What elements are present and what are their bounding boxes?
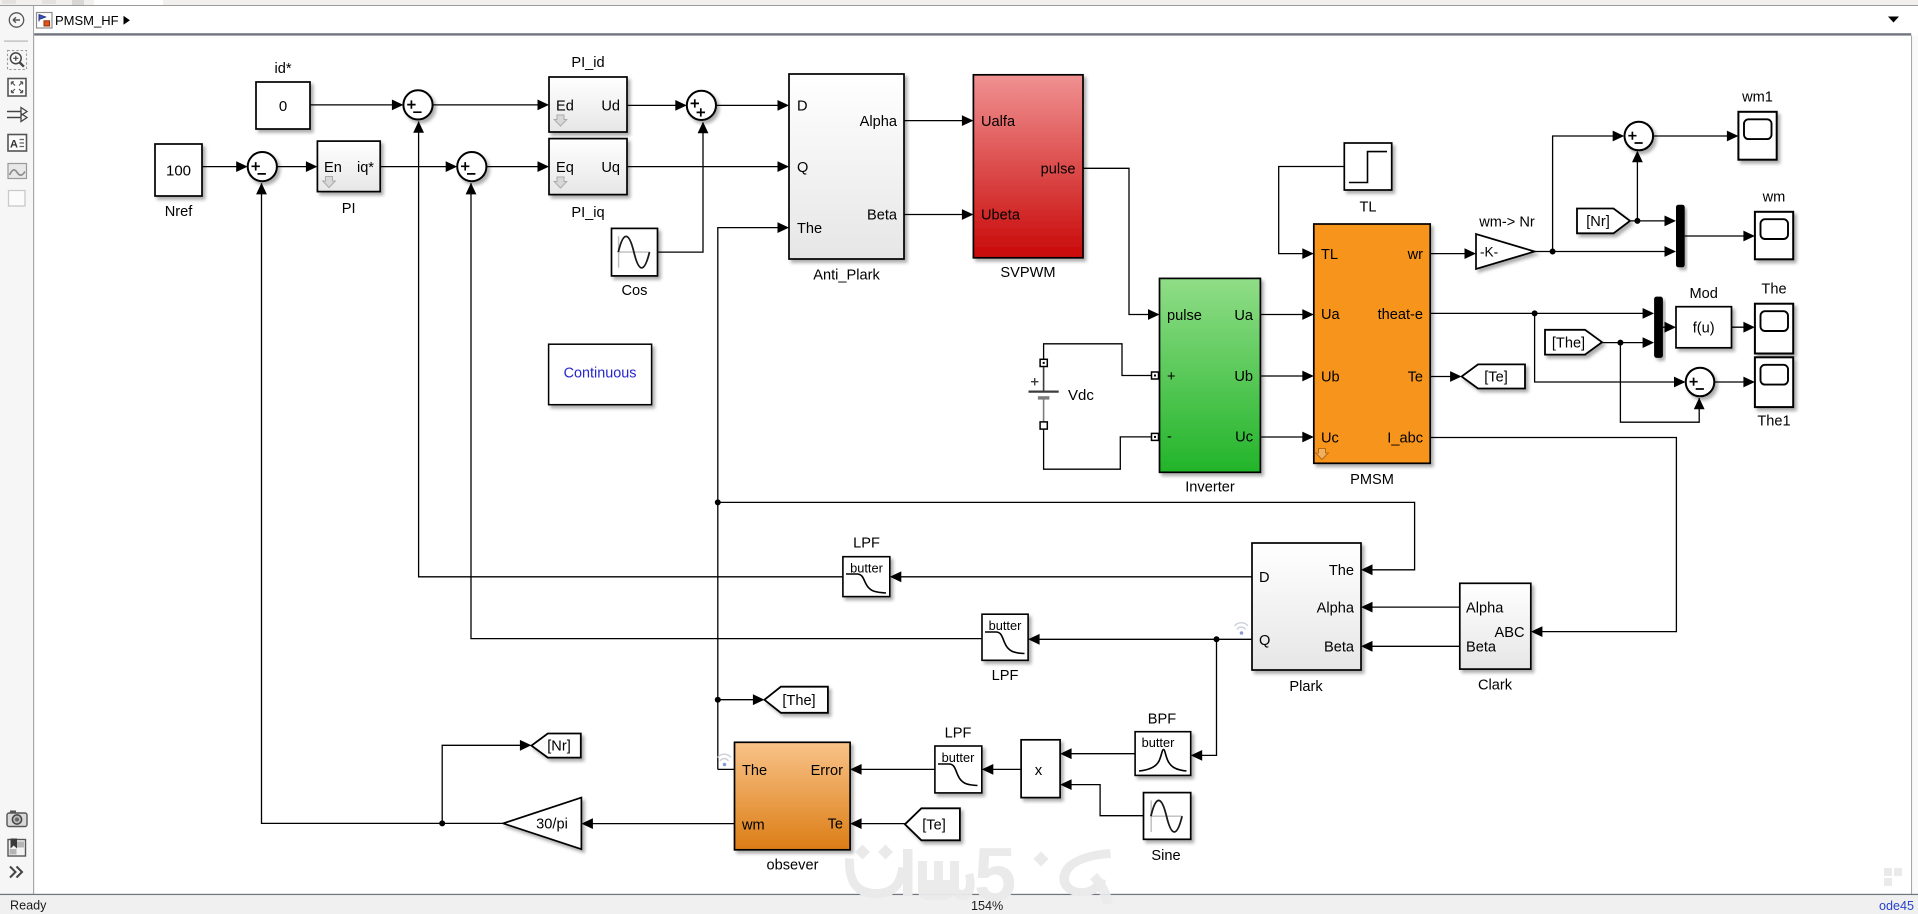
sidebar: report icon: [8, 840, 26, 857]
svg-text:Ud: Ud: [601, 99, 620, 115]
filter block LPF butter mid (flipped): [982, 614, 1028, 684]
svg-text:PI_id: PI_id: [571, 55, 604, 71]
svg-text:[Te]: [Te]: [922, 818, 946, 834]
wire Vdc minus to Inverter minus: [1044, 429, 1159, 469]
svg-text:Ualfa: Ualfa: [981, 114, 1016, 130]
svg-text:Q: Q: [797, 160, 808, 176]
product block x (flipped): [1021, 740, 1060, 798]
svg-text:Vdc: Vdc: [1068, 387, 1094, 404]
wire S3 to PI_iq Eq: [486, 161, 549, 172]
wire Anti_Plark Alpha to SVPWM Ualfa: [904, 115, 973, 126]
svg-text:PI: PI: [342, 201, 356, 217]
svg-text:id*: id*: [274, 61, 291, 77]
svg-text:LPF: LPF: [945, 726, 972, 742]
svg-text:The: The: [1761, 282, 1786, 298]
wire 30/pi to sum S1 feedback and [Nr] branch, junction: [256, 183, 531, 827]
svg-text:Alpha: Alpha: [860, 114, 898, 130]
subsystem Clark (flipped): [1460, 583, 1531, 693]
sum junction S4 (Ud + comp): [687, 91, 716, 120]
wire Plark D to LPF upper: [890, 571, 1252, 582]
svg-text:LPF: LPF: [853, 536, 880, 552]
wire [Te] lower to obsever Te: [850, 818, 905, 829]
wire LPF lower to obsever Error: [850, 764, 935, 775]
wire S1 to PI En: [277, 161, 318, 172]
svg-text:En: En: [324, 160, 342, 176]
net The: trunk to Anti_Plark The, Plark The, goto [The], obsever The: [715, 222, 1415, 769]
wire product to LPF lower: [982, 764, 1021, 775]
sum junction S1 (speed error): [248, 152, 277, 181]
svg-text:butter: butter: [1142, 735, 1175, 750]
svg-text:wm1: wm1: [1741, 90, 1773, 106]
constant block Nref value 100: [155, 144, 202, 220]
svg-text:wm-> Nr: wm-> Nr: [1478, 215, 1535, 231]
wire Clark Alpha to Plark Alpha: [1361, 602, 1460, 613]
svg-text:LPF: LPF: [992, 668, 1019, 684]
svg-text:[Nr]: [Nr]: [1586, 214, 1610, 230]
sidebar: back arrow icon: [9, 13, 23, 27]
wire PI_id Ud to S4: [627, 100, 687, 111]
svg-text:[The]: [The]: [782, 693, 815, 709]
svg-text:[Nr]: [Nr]: [547, 739, 571, 755]
subsystem Anti_Plark: [789, 74, 904, 284]
svg-text:30/pi: 30/pi: [536, 817, 568, 833]
wire PMSM wr to gain: [1430, 248, 1476, 259]
breadcrumb dropdown arrow: [1888, 17, 1899, 23]
wire mux M1 to wm scope: [1685, 231, 1755, 242]
svg-text:BPF: BPF: [1148, 712, 1176, 728]
svg-text:Te: Te: [1408, 370, 1423, 386]
wire PI_iq Uq to Anti_Plark Q: [627, 161, 789, 172]
from tag [The]: [1545, 330, 1602, 355]
subsystem PMSM: [1314, 224, 1430, 488]
svg-text:PMSM: PMSM: [1350, 472, 1394, 488]
wire PI iq* to S3: [380, 161, 457, 172]
wire S4 to Anti_Plark D: [716, 100, 789, 111]
wire BPF to product top input: [1060, 748, 1135, 759]
sidebar: annotation icon: [8, 135, 27, 152]
svg-text:Mod: Mod: [1690, 286, 1718, 302]
svg-text:Inverter: Inverter: [1185, 480, 1235, 496]
wire Vdc plus to Inverter plus: [1044, 344, 1159, 379]
wire LPF mid to sum S3 (iq feedback): [466, 183, 982, 639]
subsystem PI: [317, 141, 380, 217]
wire Inverter Uc to PMSM Uc: [1260, 432, 1313, 443]
scope The: [1755, 282, 1793, 354]
gain 30/pi (flipped): [503, 798, 581, 850]
svg-text:PMSM_HF: PMSM_HF: [55, 13, 119, 28]
svg-text:Te: Te: [828, 816, 843, 832]
wire LPF upper to sum S2 (id feedback): [413, 121, 843, 577]
breadcrumb model icon: [37, 13, 53, 29]
canvas right border: [1911, 36, 1912, 894]
sidebar: image icon: [8, 164, 27, 179]
svg-text:The: The: [742, 763, 767, 779]
svg-text:D: D: [797, 99, 808, 115]
sum junction S3 (iq error): [457, 152, 486, 181]
svg-text:Ub: Ub: [1321, 370, 1340, 386]
subsystem Inverter: [1160, 278, 1261, 495]
wire mux M2 to Mod: [1663, 322, 1676, 333]
scope wm: [1755, 190, 1793, 260]
wire Sine to product bottom input: [1060, 779, 1143, 816]
wire Clark Beta to Plark Beta: [1361, 641, 1460, 652]
signal logging badge at obsever The: [718, 754, 732, 766]
sidebar: expand chevrons: [10, 867, 22, 878]
svg-text:A: A: [10, 139, 18, 151]
subsystem PI_iq: [549, 139, 627, 221]
wire gain output to mux M1 and sum S5, junction: [1535, 131, 1676, 257]
wire Plark Q to LPF mid, junction to BPF: [1028, 634, 1252, 761]
svg-text:Nref: Nref: [165, 204, 194, 220]
wire Inverter Ua to PMSM Ua: [1260, 309, 1313, 320]
from tag [Te] lower: [905, 808, 960, 840]
svg-text:D: D: [1259, 570, 1270, 586]
wire S6 to The1 scope: [1714, 377, 1755, 388]
svg-text:PI_iq: PI_iq: [571, 205, 604, 221]
svg-text:-K-: -K-: [1480, 245, 1498, 260]
wire S2 to PI_id Ed: [433, 100, 549, 111]
source block Cos: [612, 228, 658, 299]
sum junction S5: [1625, 122, 1654, 151]
svg-text:Uc: Uc: [1321, 431, 1339, 447]
svg-text:SVPWM: SVPWM: [1000, 265, 1055, 281]
svg-text:Continuous: Continuous: [564, 366, 637, 382]
wire Nref to S1: [202, 161, 248, 172]
svg-text:I_abc: I_abc: [1387, 431, 1423, 447]
function block Mod f(u): [1676, 286, 1732, 348]
source Vdc battery: [1029, 359, 1095, 429]
svg-text:TL: TL: [1321, 247, 1338, 263]
svg-text:Ubeta: Ubeta: [981, 208, 1021, 224]
wire SVPWM pulse to Inverter pulse: [1083, 168, 1160, 320]
svg-text:Cos: Cos: [622, 283, 648, 299]
svg-text:Clark: Clark: [1478, 678, 1513, 694]
wire PMSM I_abc to Clark ABC: [1430, 438, 1676, 638]
svg-text:ABC: ABC: [1494, 625, 1524, 641]
svg-text:Plark: Plark: [1289, 679, 1323, 695]
svg-text:Beta: Beta: [1324, 640, 1355, 656]
svg-text:butter: butter: [942, 750, 975, 765]
svg-text:TL: TL: [1359, 200, 1376, 216]
svg-text:Beta: Beta: [867, 208, 898, 224]
svg-text:Eq: Eq: [556, 160, 574, 176]
svg-text:pulse: pulse: [1167, 308, 1202, 324]
svg-text:Beta: Beta: [1466, 640, 1497, 656]
wire S5 to wm1: [1653, 131, 1738, 142]
wire Mod to The scope: [1732, 322, 1755, 333]
svg-text:[Te]: [Te]: [1484, 370, 1508, 386]
filter block LPF butter lower (flipped): [935, 726, 982, 793]
from tag [Nr]: [1577, 209, 1630, 234]
left sidebar background: [0, 6, 33, 894]
mux M1: [1676, 205, 1685, 268]
wire TL to PMSM TL: [1279, 167, 1345, 260]
status bar: [0, 894, 1918, 895]
svg-text:obsever: obsever: [767, 858, 819, 874]
svg-text:The: The: [797, 221, 822, 237]
wire Cos to S4 bottom: [658, 122, 709, 252]
wire obsever wm to 30/pi: [581, 818, 734, 829]
svg-text:+: +: [1167, 369, 1176, 385]
sum junction S2 (id error): [403, 90, 432, 119]
sidebar: signal arrows icon: [7, 112, 23, 118]
svg-text:The: The: [1329, 563, 1354, 579]
svg-text:Ua: Ua: [1321, 307, 1341, 323]
svg-text:-: -: [1167, 429, 1172, 445]
svg-text:theat-e: theat-e: [1378, 307, 1423, 323]
gain wm->Nr (-K-): [1476, 215, 1535, 270]
svg-text:iq*: iq*: [357, 160, 374, 176]
wire [The] to mux M2 bottom and loop to S6 bottom: [1602, 337, 1705, 422]
svg-text:Alpha: Alpha: [1466, 600, 1504, 616]
annotation Continuous (powergui): [549, 344, 652, 405]
signal logging badge at Plark Q: [1235, 623, 1249, 635]
wire Anti_Plark Beta to SVPWM Ubeta: [904, 209, 973, 220]
svg-text:0: 0: [279, 98, 287, 115]
svg-text:Anti_Plark: Anti_Plark: [813, 268, 880, 284]
breadcrumb bar: [34, 6, 1918, 34]
constant block id* value 0: [256, 61, 310, 129]
svg-text:100: 100: [166, 163, 191, 180]
sidebar: box icon: [9, 191, 26, 207]
sidebar separator: [4, 41, 28, 42]
scope wm1: [1738, 90, 1776, 160]
filter block LPF butter upper (flipped): [843, 536, 890, 597]
svg-text:Q: Q: [1259, 633, 1270, 649]
svg-text:pulse: pulse: [1041, 161, 1076, 177]
filter block BPF butter (flipped): [1135, 712, 1191, 776]
wire id* const to S2: [310, 100, 403, 111]
svg-text:5: 5: [974, 833, 1016, 914]
svg-text:x: x: [1035, 762, 1043, 779]
subsystem PI_id: [549, 55, 627, 132]
sidebar: zoom icon: [8, 51, 27, 70]
sidebar: camera icon: [7, 813, 27, 827]
svg-text:Error: Error: [811, 763, 844, 779]
svg-text:The1: The1: [1757, 414, 1790, 430]
svg-text:[The]: [The]: [1552, 336, 1585, 352]
subsystem SVPWM: [973, 75, 1083, 281]
svg-text:wr: wr: [1407, 247, 1424, 263]
svg-text:Ed: Ed: [556, 99, 574, 115]
svg-text:Uq: Uq: [601, 160, 620, 176]
wire PMSM theat-e to mux M2 top, branch down to sum S6: [1430, 308, 1685, 387]
sum junction S6: [1686, 368, 1715, 397]
goto tag [The] lower: [764, 687, 828, 713]
svg-text:wm: wm: [741, 818, 765, 834]
svg-text:wm: wm: [1762, 190, 1786, 206]
svg-text:f(u): f(u): [1693, 320, 1715, 336]
source block Sine (flipped): [1144, 793, 1191, 864]
svg-text:ode45: ode45: [1879, 899, 1914, 913]
subsystem Plark (flipped): [1252, 543, 1361, 695]
scope The1: [1755, 357, 1793, 429]
svg-text:Uc: Uc: [1235, 429, 1253, 445]
wire [Nr] to mux M1 top and sum S5 bottom, junction: [1630, 151, 1676, 227]
svg-text:Ready: Ready: [10, 899, 47, 913]
svg-text:Ua: Ua: [1234, 308, 1254, 324]
wire Inverter Ub to PMSM Ub: [1260, 371, 1313, 382]
mux M2: [1654, 297, 1663, 358]
source block TL (step, flipped): [1344, 143, 1391, 216]
subsystem obsever: [735, 742, 851, 873]
svg-text:Alpha: Alpha: [1317, 600, 1355, 616]
goto tag [Te]: [1462, 364, 1525, 388]
svg-text:Ub: Ub: [1234, 369, 1253, 385]
goto tag [Nr] lower: [531, 734, 580, 758]
wire PMSM Te to [Te] goto: [1430, 371, 1461, 382]
top remnant toolbar strip: [0, 0, 1918, 6]
svg-text:butter: butter: [989, 618, 1022, 633]
svg-text:Sine: Sine: [1151, 848, 1180, 864]
sidebar: fit-to-view icon: [8, 79, 26, 97]
